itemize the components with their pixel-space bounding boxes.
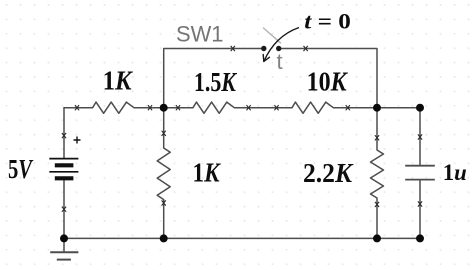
svg-text:10K: 10K	[307, 67, 349, 97]
svg-text:5V: 5V	[8, 154, 34, 184]
svg-text:SW1: SW1	[176, 22, 224, 47]
svg-text:1K: 1K	[193, 158, 222, 188]
svg-text:t = 0: t = 0	[304, 9, 351, 34]
svg-text:1.5K: 1.5K	[194, 67, 238, 97]
svg-text:1K: 1K	[103, 66, 134, 96]
svg-text:1u: 1u	[443, 160, 467, 185]
svg-text:t: t	[277, 49, 283, 74]
svg-text:2.2K: 2.2K	[303, 158, 354, 188]
